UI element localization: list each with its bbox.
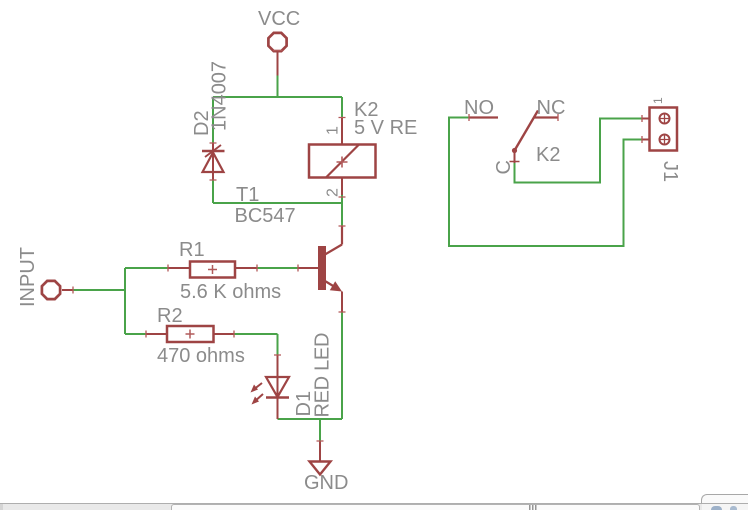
svg-text:1: 1 <box>651 97 665 104</box>
svg-text:1N4007: 1N4007 <box>209 61 231 131</box>
svg-text:1: 1 <box>325 126 342 135</box>
svg-text:R1: R1 <box>179 239 205 261</box>
svg-text:T1: T1 <box>236 184 259 206</box>
svg-text:RED LED: RED LED <box>312 333 334 418</box>
svg-text:INPUT: INPUT <box>17 247 39 307</box>
svg-text:5 V RE: 5 V RE <box>354 117 417 139</box>
svg-text:K2: K2 <box>536 144 560 166</box>
svg-text:NC: NC <box>537 97 566 119</box>
svg-text:C: C <box>493 160 515 174</box>
svg-text:J1: J1 <box>659 161 681 182</box>
svg-text:5.6 K ohms: 5.6 K ohms <box>180 281 281 303</box>
svg-text:VCC: VCC <box>258 8 300 30</box>
svg-text:R2: R2 <box>157 305 183 327</box>
svg-text:BC547: BC547 <box>235 205 296 227</box>
svg-text:2: 2 <box>325 188 342 197</box>
svg-text:470 ohms: 470 ohms <box>157 345 245 367</box>
svg-text:GND: GND <box>304 472 348 494</box>
